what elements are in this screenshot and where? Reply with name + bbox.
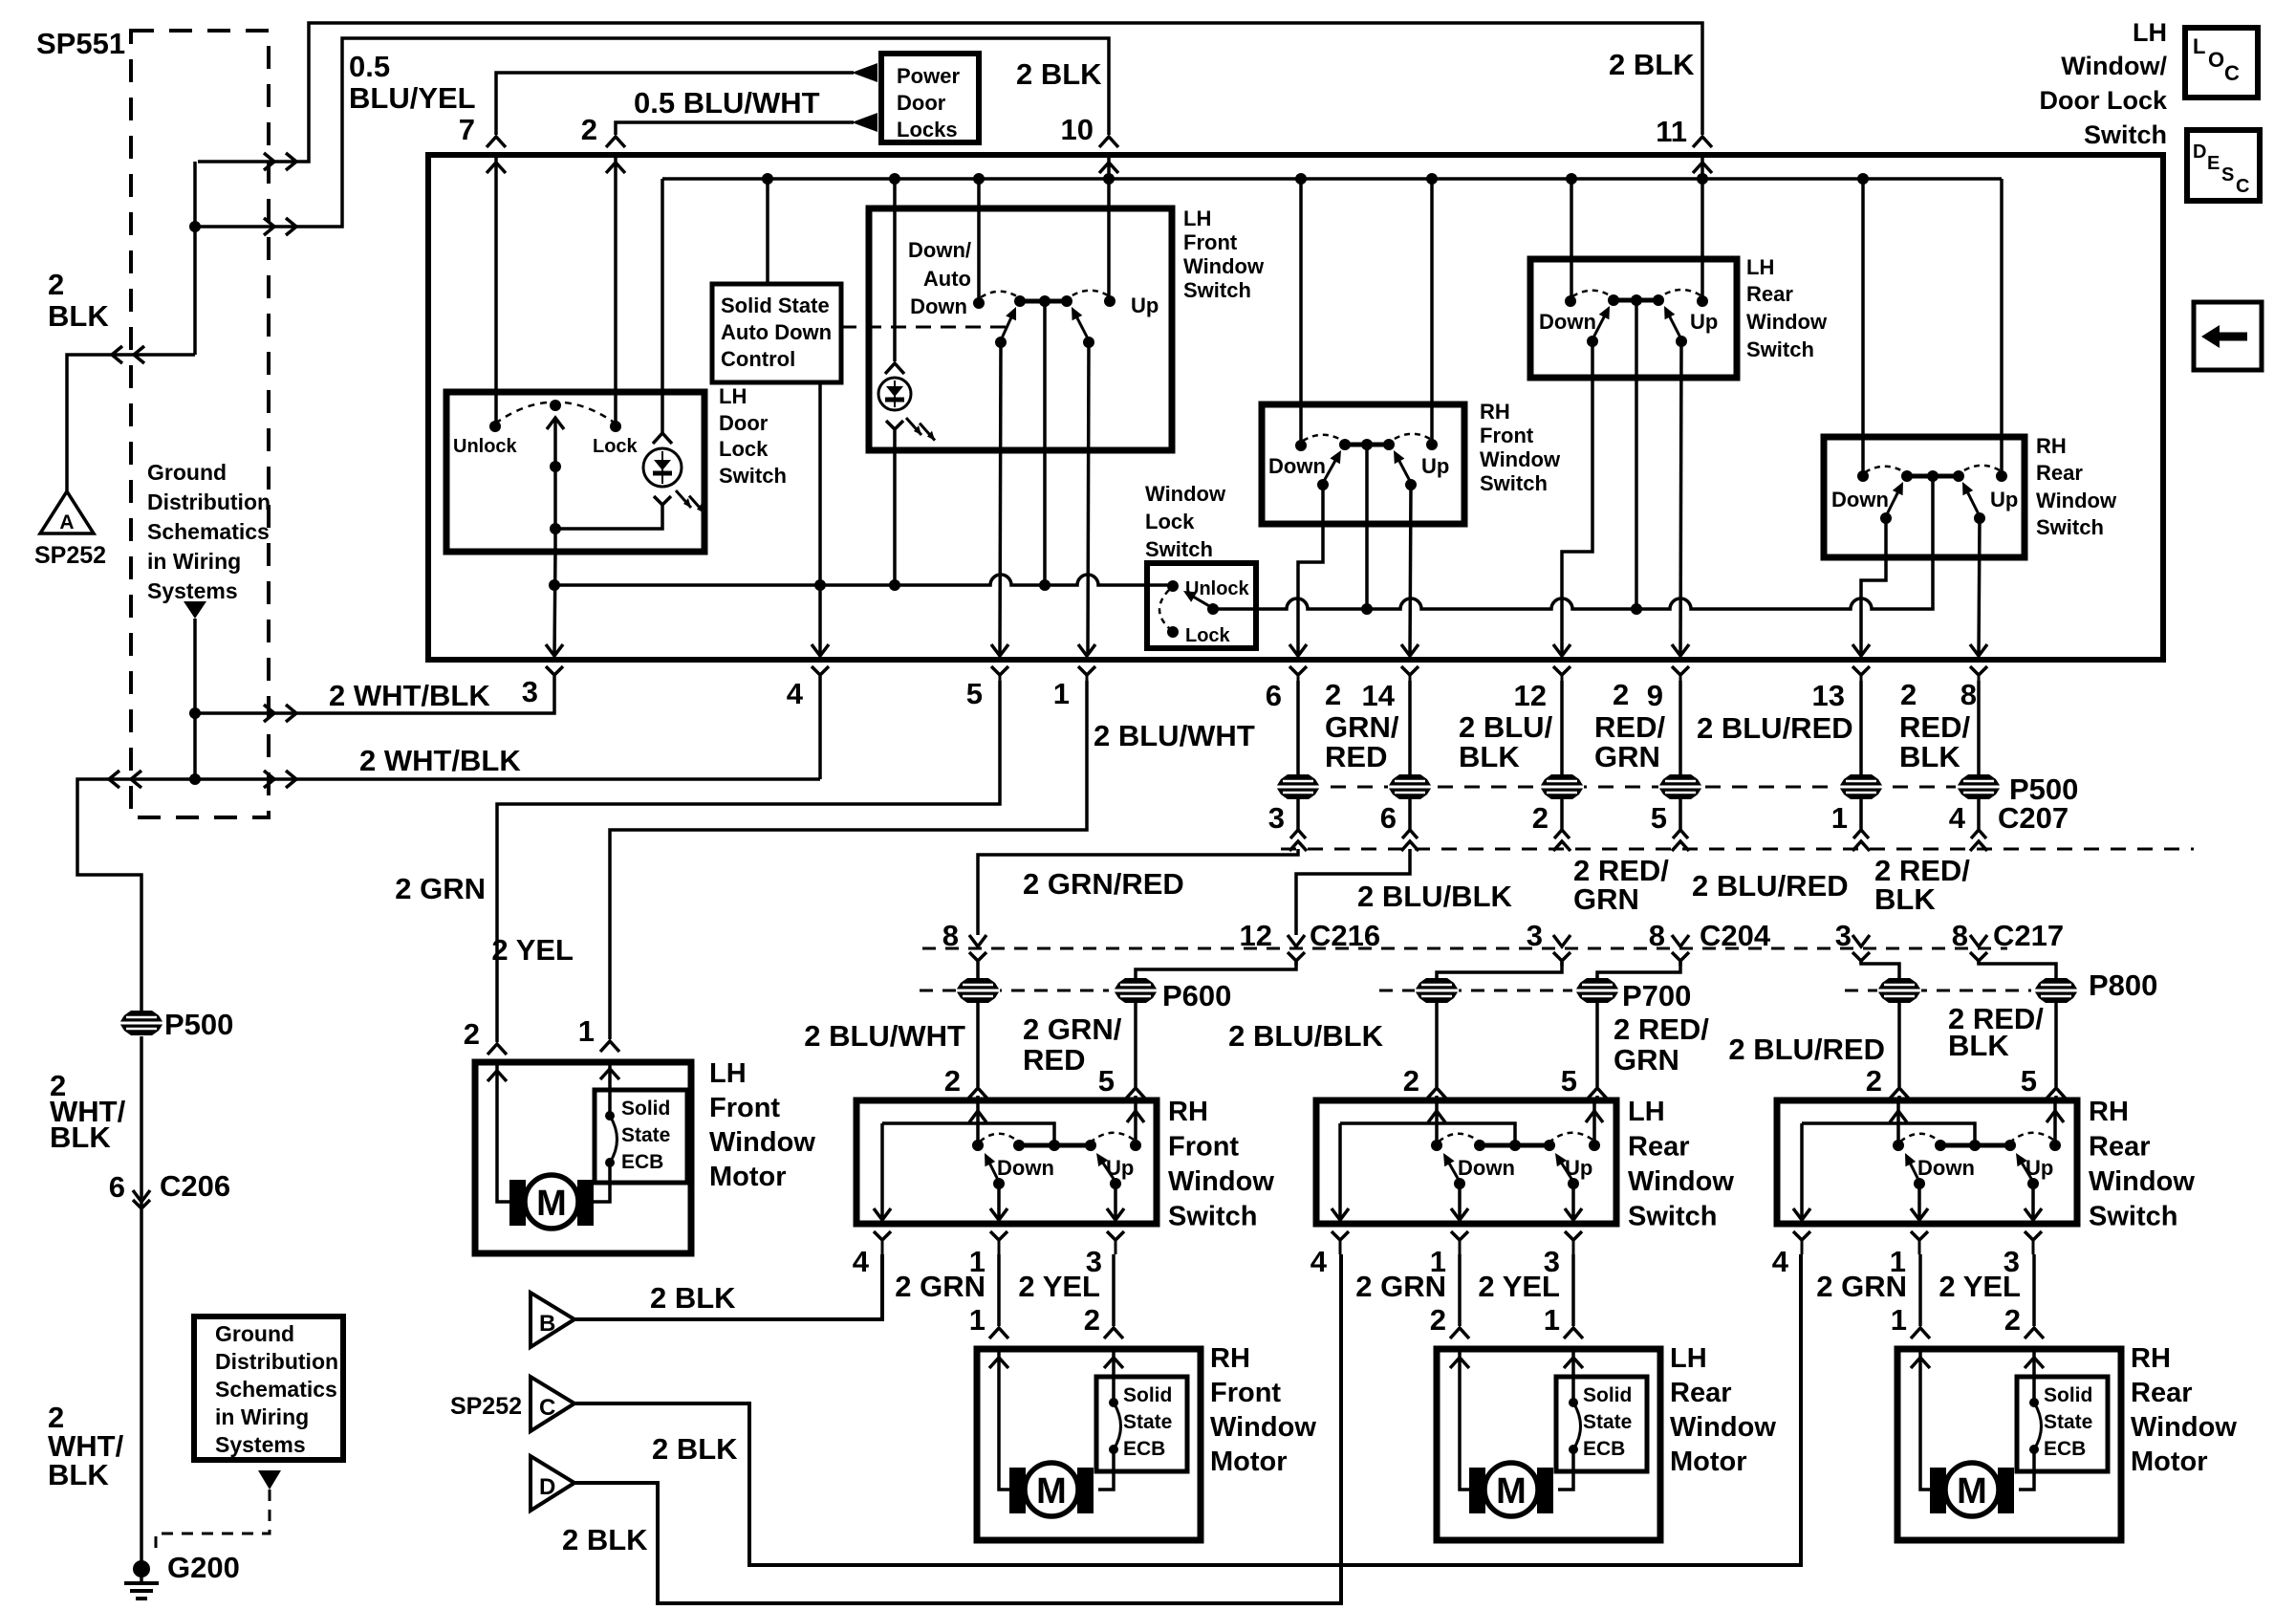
LH window/door lock switch main box — [428, 155, 2163, 660]
svg-text:Down/: Down/ — [908, 238, 971, 262]
node ground drop junction 2 — [189, 773, 201, 785]
RH front window motor label line Motor — [1210, 1447, 1288, 1477]
svg-text:1: 1 — [578, 1014, 595, 1048]
svg-text:Solid: Solid — [1123, 1384, 1172, 1406]
svg-text:Window: Window — [1480, 447, 1561, 471]
svg-text:10: 10 — [1061, 113, 1094, 146]
C207 pin 5 chevrons — [1672, 830, 1689, 851]
svg-text:Window: Window — [2089, 1166, 2195, 1197]
wire bus to RH rear Up contact — [2000, 179, 2004, 476]
note ground distribution schematics (lower) text — [215, 1321, 338, 1457]
LH rear window switch (door) label line LH — [1628, 1097, 1665, 1127]
pin 11 label — [1656, 115, 1687, 148]
svg-text:D: D — [2193, 141, 2206, 163]
svg-text:LH: LH — [1183, 207, 1211, 230]
RH front window motor box — [977, 1349, 1201, 1540]
LH rear window motor wire ECB to motor — [1558, 1449, 1573, 1490]
svg-text:M: M — [1957, 1471, 1987, 1512]
LH rear window motor wire left inside — [1460, 1352, 1475, 1490]
LH front motor pin2 label — [464, 1017, 480, 1051]
wire left ground 1 — [140, 1036, 143, 1183]
label Down (RH front) — [1268, 454, 1326, 478]
svg-text:8: 8 — [1960, 678, 1977, 711]
svg-text:Window: Window — [1628, 1166, 1734, 1197]
wire RED/BLK to P800 — [1979, 962, 2056, 978]
SP551 dashed box — [131, 31, 269, 817]
pin 11 connector chevrons — [1693, 137, 1712, 173]
RH front window switch box — [1262, 404, 1464, 524]
label 2 BLU/RED (above C217) — [1692, 869, 1849, 903]
node bus junction pin11 — [1697, 173, 1708, 185]
svg-text:BLK: BLK — [1948, 1029, 2009, 1062]
label 2 BLK — [48, 268, 109, 333]
node line B junction RH front common — [1361, 603, 1373, 615]
svg-text:Up: Up — [1131, 294, 1159, 317]
wire pin14 through connectors — [1408, 681, 1412, 830]
svg-text:Front: Front — [1210, 1378, 1281, 1408]
svg-text:BLK: BLK — [48, 299, 109, 333]
svg-text:8: 8 — [1649, 919, 1665, 952]
C207 pin 4 chevrons — [1970, 830, 1987, 851]
connector P800 right — [2034, 978, 2078, 1003]
LH front window switch box — [869, 208, 1172, 450]
svg-text:9: 9 — [1647, 679, 1663, 712]
arrow on pin3 branch — [264, 705, 296, 722]
svg-text:ECB: ECB — [2044, 1438, 2086, 1460]
wire bus to window LED — [893, 179, 897, 361]
svg-text:Window: Window — [1210, 1412, 1316, 1443]
svg-text:Front: Front — [709, 1093, 780, 1123]
node bus junction solid state — [762, 173, 773, 185]
svg-text:SP551: SP551 — [36, 27, 125, 60]
svg-text:0.5 BLU/WHT: 0.5 BLU/WHT — [634, 86, 820, 120]
power door locks box — [881, 54, 979, 142]
LH rear window switch (door) pin3 chevron — [1544, 1231, 1582, 1278]
RH rear window motor wire pin right — [2032, 1254, 2036, 1326]
svg-text:2 BLK: 2 BLK — [1609, 48, 1695, 81]
wire LH rear pin12 drop — [1562, 341, 1592, 655]
arrow into power door locks (upper) — [852, 63, 877, 82]
label Lock (door lock) — [593, 436, 639, 457]
LH rear window motor ECB element — [1569, 1398, 1581, 1454]
svg-text:2 YEL: 2 YEL — [491, 933, 574, 967]
label 2 BLK (pin10) — [1016, 57, 1102, 91]
wire left ground 2 — [140, 1183, 143, 1568]
svg-text:Lock: Lock — [593, 436, 639, 457]
label 2 BLU/RED (above switch) — [1728, 1033, 1885, 1066]
svg-text:5: 5 — [1651, 801, 1667, 835]
wire D to LH rear switch pin4 (2 BLK) — [574, 1254, 1341, 1603]
svg-text:Down: Down — [1539, 310, 1596, 334]
svg-text:in Wiring: in Wiring — [147, 549, 241, 574]
wire bus to solid state box — [766, 179, 769, 284]
svg-text:Down: Down — [997, 1156, 1054, 1180]
pin 6 connector chevron — [1289, 666, 1307, 681]
svg-text:Switch: Switch — [719, 464, 787, 488]
LH rear window motor pin 2 chevron — [1430, 1303, 1469, 1368]
svg-text:Window: Window — [2131, 1412, 2237, 1443]
RH front window switch (door) pin1 drop — [990, 1184, 1007, 1220]
svg-text:Up: Up — [1421, 454, 1449, 478]
svg-text:SP252: SP252 — [450, 1393, 522, 1420]
svg-text:M: M — [1036, 1471, 1067, 1512]
svg-text:2: 2 — [1403, 1064, 1419, 1098]
label 6 (C206) — [109, 1170, 125, 1204]
LH rear window motor ECB box — [1556, 1377, 1647, 1471]
svg-text:Locks: Locks — [897, 118, 958, 141]
window illumination LED — [878, 363, 935, 441]
label 2 BLK (B) — [650, 1281, 736, 1315]
svg-text:G200: G200 — [167, 1551, 240, 1584]
pin 14 exit arrow — [1401, 644, 1419, 656]
label Up (LH rear) — [1690, 310, 1718, 334]
LH rear window switch (door) pin4 drop — [1332, 1123, 1349, 1220]
svg-text:Ground: Ground — [215, 1321, 294, 1346]
node bus junction LH front down — [973, 173, 985, 185]
svg-text:BLK: BLK — [1899, 740, 1960, 773]
svg-text:Up: Up — [2025, 1156, 2053, 1180]
svg-text:2 BLK: 2 BLK — [1016, 57, 1102, 91]
RH front window switch (door) pin4 chevron — [853, 1231, 891, 1278]
RH front window switch (door) box — [856, 1100, 1157, 1224]
label C206 — [160, 1169, 230, 1203]
RH rear window motor label 2 GRN — [1816, 1270, 1907, 1303]
connector P500 row on pin wire (C207 pin 6) — [1388, 774, 1432, 799]
RH rear window switch (door) label line Window — [2089, 1166, 2195, 1197]
svg-text:LH: LH — [1746, 255, 1774, 279]
svg-text:5: 5 — [2021, 1064, 2037, 1098]
svg-text:BLK: BLK — [48, 1458, 109, 1491]
RH rear window motor box — [1897, 1349, 2121, 1540]
svg-text:Power: Power — [897, 64, 960, 88]
svg-text:11: 11 — [1656, 115, 1687, 148]
svg-text:3: 3 — [1527, 919, 1543, 952]
dashed ground link to G200 — [156, 1490, 270, 1556]
svg-text:2: 2 — [1613, 678, 1629, 711]
svg-text:RH: RH — [2089, 1097, 2129, 1127]
label P600 — [1162, 979, 1231, 1012]
svg-text:Solid: Solid — [1583, 1384, 1632, 1406]
RH front window switch (door) pin2 entry arrow — [969, 1103, 986, 1145]
svg-text:2 YEL: 2 YEL — [1939, 1270, 2021, 1303]
wire LED to common — [555, 504, 662, 529]
RH front throw arrows — [1323, 450, 1411, 483]
svg-text:Control: Control — [721, 347, 795, 371]
node line A tap — [549, 579, 560, 591]
RH rear window switch (door) internal feed — [1802, 1123, 1975, 1145]
wire RH front pin14 drop — [1410, 485, 1411, 655]
pin 7 connector chevrons — [487, 137, 506, 173]
svg-text:Rear: Rear — [1746, 282, 1793, 306]
svg-text:4: 4 — [853, 1245, 870, 1278]
RH front window switch (door) bar — [1013, 1140, 1096, 1151]
label C216 — [1310, 919, 1380, 952]
svg-text:M: M — [536, 1184, 567, 1224]
label C217 — [1993, 919, 2064, 952]
RH rear window motor ECB element — [2029, 1398, 2042, 1454]
RH front window motor ECB element — [1109, 1398, 1121, 1454]
LH rear throw arrows — [1592, 306, 1681, 339]
svg-text:2 GRN: 2 GRN — [1816, 1270, 1907, 1303]
svg-text:4: 4 — [787, 677, 804, 710]
RH rear window motor ECB text — [2044, 1384, 2092, 1460]
svg-text:GRN: GRN — [1614, 1043, 1679, 1077]
node ground drop junction 1 — [189, 707, 201, 719]
label 0.5 BLU/WHT — [634, 86, 820, 120]
wire C to RH rear switch pin4 (2 BLK) — [574, 1254, 1801, 1565]
wire pin10 to LH front up contact — [1107, 158, 1111, 301]
label 2 RED/BLK (above switch) — [1948, 1002, 2044, 1062]
C204 pin8 crossing — [1672, 935, 1689, 966]
svg-text:State: State — [1583, 1411, 1632, 1433]
dashed line C207 — [1281, 848, 2194, 851]
label 2 WHT/BLK (pin4) — [359, 744, 521, 777]
node window lock unlock contact — [1167, 580, 1179, 592]
RH front window switch (door) down contact — [972, 1140, 984, 1151]
label 2 RED/BLK (above C217) — [1874, 854, 1970, 916]
label 2 BLU/BLK (above switch) — [1228, 1019, 1384, 1053]
svg-text:4: 4 — [1310, 1245, 1328, 1278]
label Down/Auto Down — [908, 238, 971, 318]
label 8 (C217) — [1952, 919, 1968, 952]
LH rear window switch (door) pin4 chevron — [1310, 1231, 1349, 1278]
LH rear window motor pin 1 chevron — [1544, 1303, 1583, 1368]
ground pointer triangle — [184, 601, 206, 619]
window lock switch label — [1145, 482, 1226, 561]
RH rear window switch (door) pin3 drop — [2025, 1184, 2042, 1220]
label Up (RH front) — [1421, 454, 1449, 478]
wire LH front motor pin2 inside — [497, 1065, 523, 1202]
svg-text:C206: C206 — [160, 1169, 230, 1203]
dashed control link — [841, 326, 1011, 329]
label 2 BLU/BLK (pin12) — [1459, 710, 1553, 773]
LH rear window switch (door) bar — [1474, 1140, 1555, 1151]
pin 8 exit arrow — [1970, 644, 1987, 656]
LH door lock switch box — [446, 392, 704, 552]
pin 14 connector chevron — [1401, 666, 1419, 681]
wire pin4 branch riser — [818, 676, 822, 779]
RH front window switch (door) label line Switch — [1168, 1202, 1257, 1232]
RH front window motor label 2 YEL — [1018, 1270, 1100, 1303]
label 2 YEL (LH front) — [491, 933, 574, 967]
svg-text:2 GRN/RED: 2 GRN/RED — [1023, 867, 1184, 901]
node line B junction LH rear common — [1631, 603, 1642, 615]
wire ground distribution drop — [193, 619, 197, 779]
svg-text:Switch: Switch — [1183, 278, 1251, 302]
wire GRN/RED jog to C216-12 — [1296, 849, 1410, 935]
LH rear window motor label line LH — [1670, 1343, 1707, 1374]
svg-text:Rear: Rear — [1670, 1378, 1732, 1408]
RH front window switch (door) pin5 entry arrow — [1127, 1103, 1144, 1145]
wire B to RH front switch pin4 (2 BLK) — [574, 1254, 882, 1319]
RH rear window switch (door) label line Switch — [2089, 1202, 2177, 1232]
ground pointer triangle (lower) — [258, 1470, 281, 1490]
solid state auto down control box — [712, 284, 841, 382]
svg-text:Distribution: Distribution — [147, 490, 271, 514]
RH rear window motor wire pin left — [1918, 1254, 1922, 1326]
node LH front down contact — [973, 297, 985, 309]
splice SP551 label — [36, 27, 125, 60]
wire P700 to LH rear switch pin5 — [1595, 1003, 1599, 1101]
label 12 (C216) — [1240, 919, 1272, 952]
node LH front up contact — [1104, 295, 1116, 307]
svg-text:State: State — [2044, 1411, 2092, 1433]
wire 2 BLK to ground A — [67, 355, 195, 493]
LH front motor pin1 label — [578, 1014, 595, 1048]
pin 13 exit arrow — [1852, 644, 1870, 656]
label 3 (C217) — [1835, 919, 1852, 952]
label P500 — [2009, 772, 2078, 806]
LH rear window switch (door) label line Window — [1628, 1166, 1734, 1197]
label P800 — [2089, 968, 2157, 1002]
LH front window motor label — [709, 1058, 815, 1192]
svg-text:Unlock: Unlock — [453, 436, 518, 457]
svg-text:2 YEL: 2 YEL — [1478, 1270, 1560, 1303]
svg-text:Rear: Rear — [1628, 1132, 1690, 1163]
LH front window switch label — [1183, 207, 1265, 302]
label 2 BLK (pin11) — [1609, 48, 1695, 81]
label Lock (window lock) — [1185, 625, 1231, 646]
wire pin8 through connectors — [1977, 681, 1981, 830]
wire pin7 to unlock contact — [494, 158, 498, 426]
wire upper supply bus — [662, 177, 2002, 181]
connector C206 crossing — [133, 1190, 150, 1208]
svg-text:Motor: Motor — [2131, 1447, 2208, 1477]
svg-text:2 BLK: 2 BLK — [650, 1281, 736, 1315]
svg-text:LH: LH — [2133, 18, 2167, 47]
wire RED/GRN to P700 — [1597, 962, 1680, 978]
pin 13 label — [1812, 679, 1845, 712]
svg-text:Solid State: Solid State — [721, 294, 830, 317]
RH front window motor wire left inside — [999, 1352, 1014, 1490]
label SP252 (A) — [34, 542, 106, 569]
svg-text:ECB: ECB — [1123, 1438, 1165, 1460]
node bus junction RH front down — [1295, 173, 1307, 185]
wire LH rear common drop — [1635, 300, 1638, 609]
wire RH rear pin8 drop — [1979, 518, 1980, 655]
pin 5 exit arrow — [991, 644, 1008, 656]
RH rear window switch (door) lower contacts — [1914, 1178, 2039, 1189]
pin 12 connector chevron — [1553, 666, 1570, 681]
svg-text:RH: RH — [1480, 400, 1510, 424]
RH front window switch (door) pin3 drop — [1107, 1184, 1124, 1220]
LH rear window switch (door) label Up — [1565, 1156, 1592, 1180]
LH rear window motor label line Window — [1670, 1412, 1776, 1443]
RH rear window motor M symbol — [1930, 1463, 2014, 1516]
svg-text:RED/: RED/ — [1594, 710, 1665, 744]
note ground distribution schematics (lower) box — [194, 1316, 343, 1460]
svg-text:Motor: Motor — [1210, 1447, 1288, 1477]
wire BLU/RED to P800 — [1861, 962, 1899, 978]
svg-text:P800: P800 — [2089, 968, 2157, 1002]
LH rear switch bar — [1608, 294, 1664, 306]
svg-text:Window: Window — [1670, 1412, 1776, 1443]
RH front window motor ECB text — [1123, 1384, 1172, 1460]
pin 6 label — [1266, 679, 1282, 712]
RH front window switch (door) throw arrows — [985, 1153, 1116, 1182]
RH front window motor wire ECB to motor — [1098, 1449, 1114, 1490]
svg-text:2 BLU/: 2 BLU/ — [1459, 710, 1553, 744]
label 2 GRN/RED (above switch) — [1023, 1012, 1122, 1077]
LH front motor ECB text — [621, 1098, 670, 1173]
svg-text:6: 6 — [1380, 801, 1397, 835]
label 2 RED/BLK (pin8) — [1899, 710, 1970, 773]
svg-text:Window/: Window/ — [2061, 52, 2167, 80]
node door lock common 1 — [550, 461, 561, 472]
svg-text:RED: RED — [1023, 1043, 1085, 1077]
svg-text:2: 2 — [464, 1017, 480, 1051]
svg-text:BLU/YEL: BLU/YEL — [349, 81, 476, 115]
svg-text:GRN: GRN — [1573, 882, 1639, 916]
C207 pin 2 chevrons — [1553, 830, 1570, 851]
RH front window motor ECB box — [1096, 1377, 1187, 1471]
wire pin6 through connectors — [1296, 681, 1300, 830]
LH rear window switch (door) pin5 entry arrow — [1586, 1103, 1603, 1145]
svg-text:14: 14 — [1362, 679, 1396, 712]
node bus junction LED — [889, 173, 900, 185]
RH rear switch pin2 chevron — [1866, 1064, 1909, 1099]
svg-text:C217: C217 — [1993, 919, 2064, 952]
pin 4 label — [787, 677, 804, 710]
wire P700 to LH rear switch pin2 — [1435, 1003, 1439, 1101]
wire SP551 to pin 10 (top rail 2) — [195, 38, 1109, 227]
RH front window switch (door) label line Window — [1168, 1166, 1274, 1197]
wire LED to line A — [893, 429, 897, 585]
RH rear switch pin5 chevron — [2021, 1064, 2066, 1099]
RH front window motor M symbol — [1009, 1463, 1094, 1516]
label G200 — [167, 1551, 240, 1584]
RH rear window switch (door) pin4 chevron — [1772, 1231, 1810, 1278]
C207 pin 2 label — [1532, 801, 1549, 835]
svg-text:RED: RED — [1325, 740, 1387, 773]
pin 1 connector chevron — [1078, 666, 1095, 681]
svg-text:5: 5 — [966, 677, 983, 710]
RH front window switch (door) pin3 chevron — [1086, 1231, 1124, 1278]
C216 pin12 crossing — [1288, 935, 1305, 966]
RH front window motor label line Front — [1210, 1378, 1281, 1408]
pin 10 label — [1061, 113, 1094, 146]
svg-text:M: M — [1496, 1471, 1527, 1512]
label P700 — [1622, 979, 1691, 1012]
wire bus to LH rear down contact — [1570, 179, 1573, 301]
label 2 GRN (LH front) — [395, 872, 486, 905]
RH front dashed arcs — [1303, 434, 1430, 441]
RH rear window switch (door) dashed arcs — [1900, 1133, 2053, 1142]
label 2 BLK (D) — [562, 1523, 648, 1556]
connector P500 row on pin wire (C207 pin 5) — [1658, 774, 1702, 799]
RH front window switch (door) dashed arcs — [980, 1133, 1134, 1142]
wire RH rear pin13 drop — [1861, 518, 1886, 655]
svg-text:6: 6 — [1266, 679, 1282, 712]
node bus junction pin10 — [1103, 173, 1115, 185]
svg-text:B: B — [539, 1311, 555, 1337]
svg-text:Window: Window — [1145, 482, 1226, 506]
LH front throw arrows — [1001, 307, 1089, 340]
label 8 (C204) — [1649, 919, 1665, 952]
label 2 BLU/BLK (above C204) — [1357, 880, 1513, 913]
RH rear lower contacts — [1880, 512, 1985, 524]
label 2 BLU/WHT (pin6) — [1094, 719, 1255, 752]
wire pin12 through connectors — [1560, 681, 1564, 830]
C207 pin 1 chevrons — [1852, 830, 1870, 851]
svg-text:Lock: Lock — [1185, 625, 1231, 646]
wire LH front ECB to motor — [581, 1163, 610, 1202]
wire bus to RH rear down contact — [1861, 179, 1865, 476]
svg-text:Window: Window — [1746, 310, 1828, 334]
wire P600 to RH front switch pin2 — [976, 1003, 980, 1101]
RH rear window motor label 2 YEL — [1939, 1270, 2021, 1303]
C207 pin 6 label — [1380, 801, 1397, 835]
